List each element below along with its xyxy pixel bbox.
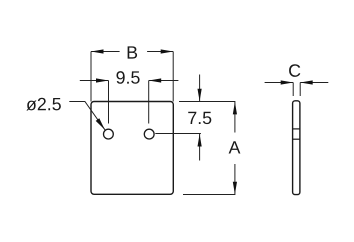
dimension A: label "A"	[229, 141, 241, 153]
hole callout: leader line	[69, 102, 105, 131]
dimension C: dimension and extension lines	[265, 83, 329, 97]
front view: left hole	[104, 129, 114, 139]
hole callout: leader arrowhead	[96, 118, 105, 129]
dimension C: arrowheads	[281, 80, 313, 84]
side view: hole edge lines	[293, 129, 300, 139]
dimension A: dimension and extension lines	[183, 102, 235, 195]
hole callout: label "&#216;2.5"	[26, 98, 60, 111]
dimension 9.5: arrowheads	[96, 78, 161, 82]
dimension C: label "C"	[289, 64, 300, 77]
dimension 9.5: label "9.5"	[116, 71, 139, 84]
side view: plate outline	[293, 101, 300, 195]
dimension 7.5: label "7.5"	[188, 112, 211, 124]
dimension B: dimension and extension lines	[91, 52, 173, 102]
dimension A: arrowheads	[233, 102, 237, 194]
dimension 7.5: dimension and extension lines	[155, 75, 235, 161]
front view: plate outline	[91, 102, 173, 195]
front view: right hole	[144, 129, 154, 139]
dimension B: arrowheads	[91, 49, 173, 53]
dimension 7.5: arrowheads	[198, 89, 202, 147]
dimension B: label "B"	[128, 46, 137, 58]
dimension 9.5: dimension and extension lines	[80, 81, 179, 124]
